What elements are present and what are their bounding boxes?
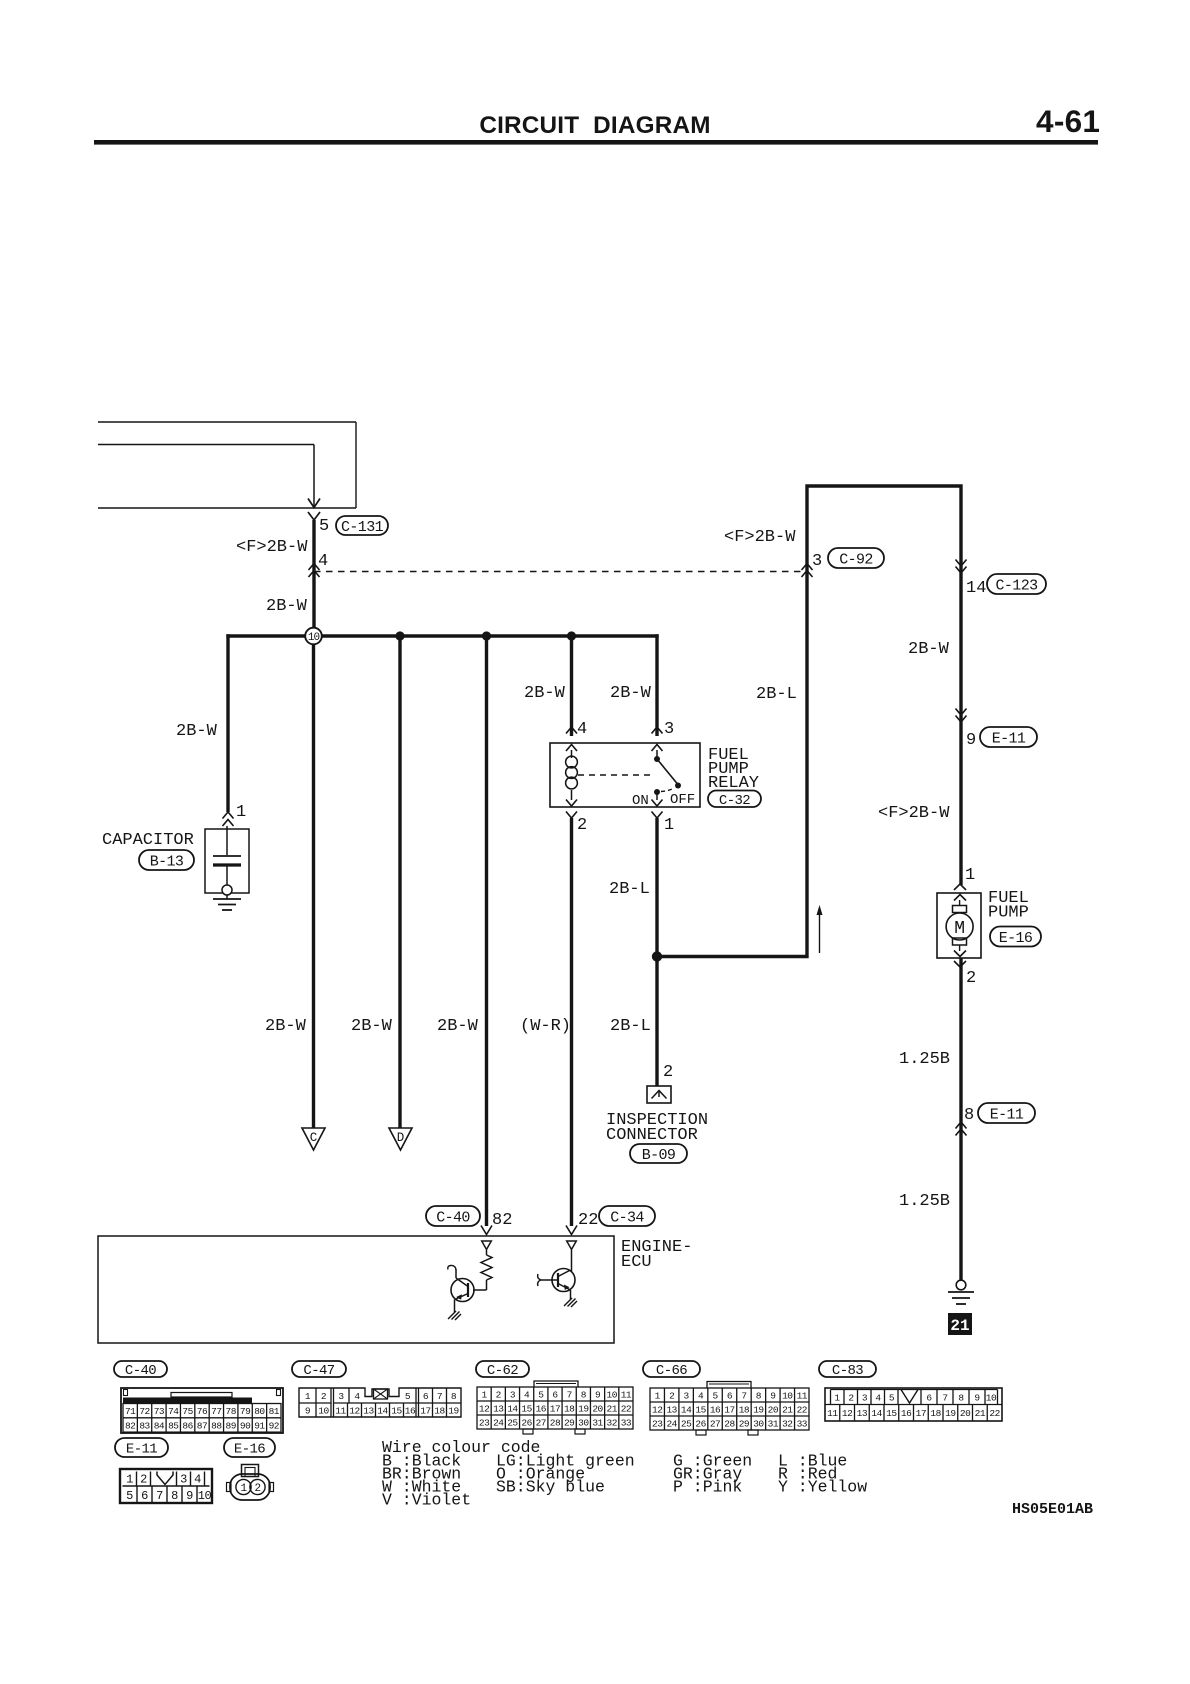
svg-text:73: 73 (154, 1406, 165, 1417)
svg-text:2: 2 (140, 1473, 147, 1487)
svg-text:78: 78 (226, 1406, 237, 1417)
connector label C-47 (pinout) (292, 1361, 346, 1379)
svg-text:10: 10 (198, 1489, 212, 1503)
connector label C-32 (708, 791, 761, 809)
connector C-123 pin 14 double chevron (956, 560, 967, 567)
wire colour code column 1 (382, 1452, 471, 1510)
svg-text:11: 11 (335, 1406, 346, 1417)
svg-text:22: 22 (797, 1404, 808, 1415)
svg-text:28: 28 (724, 1418, 735, 1429)
svg-text:16: 16 (710, 1404, 721, 1415)
svg-text:C-32: C-32 (719, 793, 750, 809)
svg-text:4: 4 (875, 1393, 881, 1404)
svg-text:D: D (397, 1131, 405, 1145)
svg-text:OFF: OFF (670, 792, 695, 808)
connector C-131 pin 5 chevron below box edge (308, 512, 320, 520)
svg-text:C-131: C-131 (341, 519, 384, 536)
junction dot (395, 631, 404, 640)
svg-text:80: 80 (254, 1406, 265, 1417)
svg-text:23: 23 (479, 1417, 490, 1428)
upper circuit box edge, bottom line (98, 507, 356, 509)
connector C-40 pinout (121, 1388, 283, 1433)
svg-text:9: 9 (186, 1489, 193, 1503)
svg-text:79: 79 (240, 1406, 251, 1417)
svg-text:91: 91 (254, 1420, 265, 1431)
svg-text:CAPACITOR: CAPACITOR (102, 831, 194, 850)
svg-text:14: 14 (681, 1404, 692, 1415)
svg-text:85: 85 (168, 1420, 179, 1431)
svg-text:30: 30 (578, 1417, 589, 1428)
svg-text:75: 75 (182, 1406, 193, 1417)
svg-text:2B-W: 2B-W (437, 1017, 479, 1036)
svg-text:1: 1 (481, 1389, 487, 1400)
svg-text:6: 6 (423, 1391, 429, 1402)
fuel pump relay box C-32 (550, 743, 700, 807)
connector label C-123 (987, 574, 1046, 594)
transistor Q2 (ECU internal, pin 22) (538, 1250, 575, 1299)
svg-text:25: 25 (681, 1418, 692, 1429)
ground (body earth) (948, 1292, 974, 1304)
wire 2B-W bus to relay pin 4 (570, 636, 573, 736)
capacitor pin 1 double chevron (223, 812, 234, 819)
connector label C-34 (599, 1206, 655, 1226)
svg-text:19: 19 (753, 1404, 764, 1415)
svg-text:CIRCUIT DIAGRAM: CIRCUIT DIAGRAM (479, 112, 710, 139)
svg-text:B-09: B-09 (642, 1147, 676, 1164)
connector label C-92 (828, 548, 884, 568)
connector label B-13 (139, 850, 194, 870)
svg-text:C-62: C-62 (487, 1363, 518, 1379)
svg-text:11: 11 (797, 1390, 808, 1401)
svg-text:8: 8 (451, 1391, 457, 1402)
svg-text:19: 19 (945, 1408, 956, 1419)
svg-text:PUMP: PUMP (988, 904, 1029, 923)
svg-text:17: 17 (916, 1408, 926, 1419)
connector label E-11 (pinout) (115, 1438, 168, 1458)
ECU pin 82 entry arrowhead (481, 1226, 492, 1235)
svg-text:89: 89 (226, 1420, 237, 1431)
svg-text:12: 12 (652, 1404, 663, 1415)
relay pin 1 chevron outside (652, 812, 663, 819)
connector label E-16 (990, 927, 1041, 947)
svg-text:C-66: C-66 (656, 1363, 687, 1379)
engine ECU box (98, 1236, 614, 1343)
svg-text:B-13: B-13 (150, 853, 184, 870)
svg-text:6: 6 (926, 1393, 932, 1404)
svg-text:E-11: E-11 (990, 1106, 1024, 1123)
svg-text:90: 90 (240, 1420, 251, 1431)
svg-text:SB:Sky blue: SB:Sky blue (496, 1478, 605, 1497)
svg-text:C-34: C-34 (610, 1209, 644, 1226)
svg-text:32: 32 (782, 1418, 793, 1429)
svg-text:15: 15 (391, 1406, 402, 1417)
fuel pump pin 1 chevron inside (954, 895, 966, 901)
fuel pump box E-16 (937, 893, 981, 958)
svg-text:17: 17 (724, 1404, 734, 1415)
ECU pin 22 internal symbol (567, 1241, 577, 1250)
svg-text:M: M (954, 919, 965, 939)
svg-text:82: 82 (125, 1420, 136, 1431)
wire 2B-L riser: junction right, up, across top (657, 486, 961, 957)
svg-text:2B-W: 2B-W (908, 640, 950, 659)
svg-text:3: 3 (862, 1393, 868, 1404)
svg-text:2B-W: 2B-W (524, 684, 566, 703)
svg-text:3: 3 (338, 1391, 344, 1402)
splice node 10 (305, 628, 322, 645)
svg-text:4-61: 4-61 (1036, 103, 1100, 139)
svg-text:<F>2B-W: <F>2B-W (878, 804, 950, 823)
svg-text:9: 9 (305, 1406, 311, 1417)
svg-text:92: 92 (269, 1420, 280, 1431)
connector label E-11 pin 9 (980, 727, 1037, 747)
svg-text:20: 20 (960, 1408, 971, 1419)
svg-text:9: 9 (966, 731, 976, 750)
svg-text:HS05E01AB: HS05E01AB (1012, 1501, 1093, 1518)
svg-text:1: 1 (834, 1393, 840, 1404)
svg-text:77: 77 (211, 1406, 221, 1417)
svg-text:14: 14 (871, 1408, 882, 1419)
svg-text:C-40: C-40 (436, 1209, 470, 1226)
svg-text:2: 2 (966, 969, 976, 988)
wire 1.25B fuel pump to ground (959, 958, 962, 1282)
svg-text:13: 13 (493, 1403, 504, 1414)
connector label C-62 (pinout) (476, 1361, 529, 1379)
svg-text:2B-W: 2B-W (351, 1017, 393, 1036)
wire colour code column 2 (496, 1452, 635, 1497)
bus wire (main 2B-W distribution) (226, 634, 658, 637)
connector C-92 pin 4 double chevron (309, 564, 320, 571)
ECU pin 82 internal symbol (482, 1241, 492, 1250)
svg-text:5: 5 (126, 1489, 133, 1503)
svg-text:21: 21 (975, 1408, 986, 1419)
svg-text:86: 86 (182, 1420, 193, 1431)
relay pin 4 chevron inside (566, 745, 577, 752)
wire 2B-W from pin 5 down to splice 10 (312, 520, 315, 636)
svg-text:14: 14 (377, 1406, 388, 1417)
svg-text:17: 17 (550, 1403, 560, 1414)
svg-text:(W-R): (W-R) (520, 1017, 571, 1036)
component label ENGINE-ECU (621, 1238, 692, 1272)
svg-text:1.25B: 1.25B (899, 1192, 950, 1211)
svg-text:11: 11 (827, 1408, 838, 1419)
svg-text:Y :Yellow: Y :Yellow (778, 1478, 867, 1497)
connector label C-131 (336, 516, 388, 536)
svg-text:2B-L: 2B-L (610, 1017, 651, 1036)
connector E-16 pinout (227, 1465, 274, 1501)
svg-text:2: 2 (321, 1391, 327, 1402)
svg-text:4: 4 (354, 1391, 360, 1402)
svg-text:ECU: ECU (621, 1253, 652, 1272)
relay coil (566, 756, 578, 789)
svg-text:13: 13 (857, 1408, 868, 1419)
fuel pump pin 2 chevron outside (954, 961, 966, 967)
svg-text:19: 19 (578, 1403, 589, 1414)
svg-text:83: 83 (139, 1420, 150, 1431)
ground reference number 21 (948, 1313, 972, 1335)
component label FUEL PUMP RELAY (708, 746, 759, 793)
svg-text:24: 24 (493, 1417, 504, 1428)
svg-text:<F>2B-W: <F>2B-W (724, 528, 796, 547)
svg-text:28: 28 (550, 1417, 561, 1428)
svg-text:16: 16 (901, 1408, 912, 1419)
svg-text:10: 10 (318, 1406, 329, 1417)
svg-text:14: 14 (966, 579, 986, 598)
wire 2B-W bus to node C (312, 644, 315, 1128)
svg-text:18: 18 (434, 1406, 445, 1417)
wire (W-R) relay pin 2 to ECU pin 22 (570, 818, 573, 1226)
svg-text:29: 29 (564, 1417, 575, 1428)
svg-text:22: 22 (621, 1403, 632, 1414)
connector C-66 pinout (650, 1382, 809, 1436)
svg-text:33: 33 (621, 1417, 632, 1428)
svg-text:15: 15 (695, 1404, 706, 1415)
wire 2B-W bus to node D (398, 636, 401, 1128)
svg-text:2: 2 (848, 1393, 854, 1404)
svg-text:4: 4 (698, 1390, 704, 1401)
svg-text:1: 1 (305, 1391, 311, 1402)
svg-text:C-40: C-40 (125, 1363, 156, 1379)
svg-text:E-16: E-16 (999, 930, 1033, 947)
connector label E-11 pin 8 (978, 1103, 1035, 1123)
connector label E-16 (pinout) (224, 1438, 275, 1458)
relay internal dashed link coil to switch (578, 774, 650, 776)
junction dot (482, 631, 491, 640)
wire colour code column 3 (673, 1452, 752, 1497)
ground (ECU Q1) (448, 1311, 461, 1320)
relay pin 3 chevron outside (652, 727, 663, 734)
inspection connector B-09 terminal box (647, 1086, 671, 1103)
svg-text:5: 5 (319, 517, 329, 536)
svg-text:5: 5 (405, 1391, 411, 1402)
svg-text:2B-W: 2B-W (176, 722, 218, 741)
capacitor element (213, 826, 241, 885)
svg-text:17: 17 (420, 1406, 430, 1417)
svg-text:82: 82 (492, 1211, 512, 1230)
relay pin 2 chevron inside (566, 800, 577, 807)
svg-text:29: 29 (739, 1418, 750, 1429)
svg-text:1: 1 (240, 1483, 247, 1495)
svg-text:P :Pink: P :Pink (673, 1478, 742, 1497)
svg-text:13: 13 (666, 1404, 677, 1415)
svg-text:4: 4 (577, 720, 587, 739)
svg-text:21: 21 (782, 1404, 793, 1415)
relay pin 4 chevron outside (566, 727, 577, 734)
svg-text:2B-W: 2B-W (266, 597, 308, 616)
svg-text:32: 32 (607, 1417, 618, 1428)
connector E-11 pinout (120, 1469, 212, 1503)
bus corner down to relay pin 3 (655, 634, 658, 736)
junction dot (567, 631, 576, 640)
svg-text:3: 3 (180, 1473, 187, 1487)
svg-text:2: 2 (669, 1390, 675, 1401)
svg-text:5: 5 (889, 1393, 895, 1404)
fuel pump motor M1 (946, 900, 973, 951)
svg-text:12: 12 (479, 1403, 490, 1414)
upper circuit box edge (partial), top line (98, 421, 356, 423)
node D triangle (389, 1128, 412, 1150)
svg-text:22: 22 (578, 1211, 598, 1230)
dashed intermediate-connector link line (314, 571, 807, 573)
svg-text:23: 23 (652, 1418, 663, 1429)
svg-text:84: 84 (154, 1420, 165, 1431)
svg-text:E-11: E-11 (992, 730, 1026, 747)
svg-text:2: 2 (496, 1389, 502, 1400)
svg-text:V :Violet: V :Violet (382, 1491, 471, 1510)
svg-text:8: 8 (756, 1390, 762, 1401)
wire from upper circuit down to connector C-131 pin 5 (313, 445, 315, 507)
svg-text:12: 12 (349, 1406, 360, 1417)
svg-text:6: 6 (141, 1489, 148, 1503)
svg-text:18: 18 (564, 1403, 575, 1414)
upper circuit box edge, second line (98, 444, 314, 446)
svg-text:12: 12 (842, 1408, 853, 1419)
svg-text:76: 76 (197, 1406, 208, 1417)
component label INSPECTION CONNECTOR (606, 1111, 708, 1145)
svg-text:5: 5 (712, 1390, 718, 1401)
svg-text:7: 7 (567, 1389, 572, 1400)
svg-text:9: 9 (974, 1393, 980, 1404)
svg-text:87: 87 (197, 1420, 207, 1431)
svg-text:14: 14 (507, 1403, 518, 1414)
svg-text:20: 20 (768, 1404, 779, 1415)
svg-text:C: C (310, 1131, 318, 1145)
svg-text:27: 27 (710, 1418, 720, 1429)
relay switch (654, 750, 681, 800)
svg-text:88: 88 (211, 1420, 222, 1431)
svg-text:31: 31 (592, 1417, 603, 1428)
ground terminal circle (956, 1280, 966, 1290)
svg-text:18: 18 (739, 1404, 750, 1415)
svg-text:15: 15 (886, 1408, 897, 1419)
fuel pump pin 2 chevron inside (954, 951, 966, 957)
fuel pump pin 1 chevron outside (954, 884, 966, 890)
connector C-47 pinout (299, 1388, 461, 1417)
svg-text:27: 27 (536, 1417, 546, 1428)
connector C-83 pinout (825, 1388, 1002, 1421)
capacitor B-13 outline box (205, 829, 249, 893)
svg-text:1.25B: 1.25B (899, 1050, 950, 1069)
junction dot at 2B-L node (652, 951, 662, 961)
svg-text:11: 11 (621, 1389, 632, 1400)
svg-text:2B-W: 2B-W (265, 1017, 307, 1036)
svg-text:16: 16 (405, 1406, 416, 1417)
relay pin 3 chevron inside (652, 745, 663, 752)
svg-text:81: 81 (269, 1406, 280, 1417)
svg-text:74: 74 (168, 1406, 179, 1417)
svg-text:5: 5 (538, 1389, 544, 1400)
svg-text:21: 21 (607, 1403, 618, 1414)
connector E-11 pin 9 double chevron (956, 709, 967, 716)
wire 2B-W bus to ECU pin 82 (485, 636, 488, 1226)
svg-text:21: 21 (950, 1317, 969, 1335)
svg-text:E-11: E-11 (126, 1442, 157, 1458)
svg-text:15: 15 (521, 1403, 532, 1414)
svg-text:C-47: C-47 (303, 1363, 334, 1379)
svg-text:33: 33 (797, 1418, 808, 1429)
svg-text:6: 6 (727, 1390, 733, 1401)
svg-text:2: 2 (663, 1063, 673, 1082)
svg-text:2: 2 (577, 816, 587, 835)
wire colour code column 4 (778, 1452, 867, 1497)
svg-text:8: 8 (171, 1489, 178, 1503)
svg-text:18: 18 (930, 1408, 941, 1419)
svg-text:24: 24 (666, 1418, 677, 1429)
svg-text:72: 72 (139, 1406, 150, 1417)
svg-text:19: 19 (448, 1406, 459, 1417)
svg-text:CONNECTOR: CONNECTOR (606, 1126, 698, 1145)
relay pin 2 chevron outside (566, 812, 577, 819)
svg-text:2B-L: 2B-L (609, 880, 650, 899)
svg-text:10: 10 (308, 632, 320, 644)
svg-text:9: 9 (595, 1389, 601, 1400)
svg-text:<F>2B-W: <F>2B-W (236, 538, 308, 557)
svg-text:C-83: C-83 (832, 1363, 863, 1379)
svg-text:ON: ON (632, 793, 649, 809)
svg-text:2B-W: 2B-W (610, 684, 652, 703)
connector label C-83 (pinout) (819, 1361, 876, 1379)
svg-text:1: 1 (664, 816, 674, 835)
connector label C-40 (pinout) (114, 1361, 167, 1379)
svg-text:C-92: C-92 (839, 551, 873, 568)
resistor R1 (ECU internal) (481, 1250, 492, 1290)
svg-text:13: 13 (363, 1406, 374, 1417)
svg-text:10: 10 (986, 1393, 997, 1404)
connector label C-40 at ECU (426, 1206, 480, 1226)
svg-text:1: 1 (126, 1473, 133, 1487)
connector label C-66 (pinout) (643, 1361, 700, 1379)
svg-text:1: 1 (965, 866, 975, 885)
svg-text:71: 71 (125, 1406, 136, 1417)
svg-text:25: 25 (507, 1417, 518, 1428)
connector E-11 pin 8 double chevron (956, 1122, 967, 1129)
component label FUEL PUMP (988, 889, 1029, 923)
svg-text:6: 6 (552, 1389, 558, 1400)
current direction arrow (817, 905, 823, 953)
svg-text:4: 4 (524, 1389, 530, 1400)
svg-text:8: 8 (581, 1389, 587, 1400)
ECU pin 22 entry arrowhead (566, 1226, 577, 1235)
svg-text:3: 3 (510, 1389, 516, 1400)
svg-text:4: 4 (194, 1473, 201, 1487)
wire 2B-W bus to capacitor (226, 634, 229, 812)
svg-text:3: 3 (684, 1390, 690, 1401)
wire 2B-L relay pin 1 down to junction (655, 818, 658, 1086)
svg-text:4: 4 (318, 552, 328, 571)
svg-text:20: 20 (592, 1403, 603, 1414)
node C triangle (302, 1128, 325, 1150)
svg-text:7: 7 (156, 1489, 163, 1503)
svg-text:3: 3 (812, 552, 822, 571)
relay pin 1 chevron inside (652, 800, 663, 807)
svg-text:8: 8 (958, 1393, 964, 1404)
connector C-92 pin 3 double chevron (802, 564, 813, 571)
upper circuit box edge, right vertical (355, 422, 357, 508)
svg-text:10: 10 (782, 1390, 793, 1401)
svg-text:9: 9 (770, 1390, 776, 1401)
ground (ECU Q2) (564, 1298, 577, 1307)
capacitor case ground terminal circle (222, 885, 232, 895)
ground (capacitor) (213, 895, 241, 910)
transistor Q1 (ECU internal, pin 82) (448, 1265, 487, 1312)
svg-text:7: 7 (741, 1390, 746, 1401)
connector label B-09 (630, 1144, 687, 1164)
svg-text:C-123: C-123 (995, 577, 1038, 594)
header rule (94, 140, 1098, 145)
svg-text:2: 2 (254, 1483, 260, 1495)
svg-text:7: 7 (942, 1393, 947, 1404)
svg-text:10: 10 (607, 1389, 618, 1400)
svg-text:E-16: E-16 (234, 1442, 265, 1458)
